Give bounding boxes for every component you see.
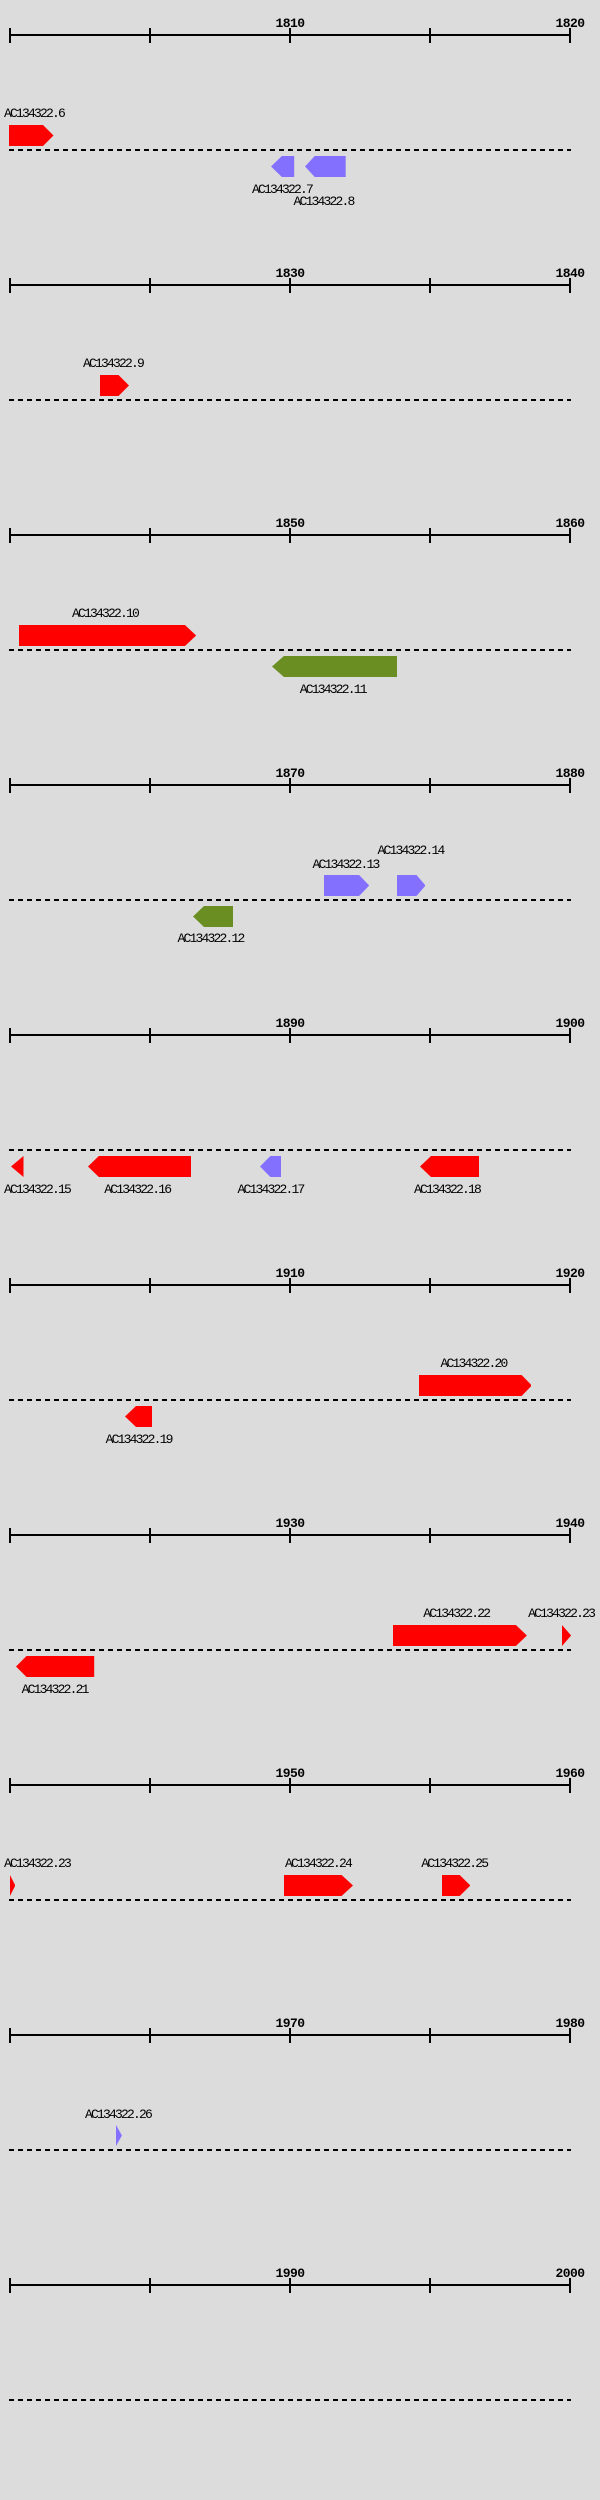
feature arrow AC134322.10 xyxy=(19,625,196,646)
panel 7 tick 1920 xyxy=(9,1528,11,1543)
panel 1 dashed midline xyxy=(9,149,571,151)
feature arrow AC134322.17 xyxy=(260,1156,281,1177)
feature arrow AC134322.18 xyxy=(420,1156,479,1177)
panel 9 tick 1980 xyxy=(569,2028,571,2043)
panel 8 ruler label 1950 xyxy=(276,1767,305,1780)
panel 10 tick 2000 xyxy=(569,2278,571,2293)
panel 8 tick 1950 xyxy=(289,1778,291,1793)
panel 5 ruler label 1890 xyxy=(276,1017,305,1030)
feature arrow AC134322.22 xyxy=(393,1625,527,1646)
panel 3 ruler label 1860 xyxy=(556,517,585,530)
feature label AC134322.24 xyxy=(285,1857,351,1870)
feature arrow AC134322.7 xyxy=(271,156,294,177)
panel 6 ruler label 1910 xyxy=(276,1267,305,1280)
feature label AC134322.14 xyxy=(378,844,444,857)
panel 2 ruler label 1830 xyxy=(276,267,305,280)
panel 10 dashed midline xyxy=(9,2399,571,2401)
panel 4 dashed midline xyxy=(9,899,571,901)
feature label AC134322.8 xyxy=(294,195,354,208)
feature label AC134322.7 xyxy=(252,183,312,196)
panel 10 tick 1980 xyxy=(9,2278,11,2293)
panel 7 ruler line (1920..1940) xyxy=(9,1534,571,1536)
feature arrow AC134322.25 xyxy=(442,1875,470,1896)
feature label AC134322.26 xyxy=(85,2108,151,2121)
feature label AC134322.16 xyxy=(104,1183,170,1196)
panel 4 tick 1870 xyxy=(289,778,291,793)
panel 7 ruler label 1940 xyxy=(556,1517,585,1530)
feature label AC134322.12 xyxy=(178,932,244,945)
feature arrow AC134322.24 xyxy=(284,1875,353,1896)
panel 9 ruler line (1960..1980) xyxy=(9,2034,571,2036)
feature arrow AC134322.6 xyxy=(9,125,54,146)
panel 9 tick 1970 xyxy=(289,2028,291,2043)
feature arrow AC134322.23 xyxy=(10,1875,15,1896)
panel 7 tick 1935 xyxy=(429,1528,431,1543)
feature label AC134322.13 xyxy=(313,858,379,871)
panel 4 ruler label 1880 xyxy=(556,767,585,780)
feature label AC134322.22 xyxy=(423,1607,489,1620)
panel 2 tick 1820 xyxy=(9,278,11,293)
feature label AC134322.17 xyxy=(238,1183,304,1196)
panel 10 tick 1990 xyxy=(289,2278,291,2293)
panel 3 tick 1850 xyxy=(289,528,291,543)
panel 3 tick 1860 xyxy=(569,528,571,543)
panel 4 tick 1875 xyxy=(429,778,431,793)
panel 2 tick 1840 xyxy=(569,278,571,293)
panel 5 tick 1880 xyxy=(9,1028,11,1043)
feature arrow AC134322.19 xyxy=(125,1406,152,1427)
panel 9 tick 1975 xyxy=(429,2028,431,2043)
panel 7 tick 1930 xyxy=(289,1528,291,1543)
panel 2 dashed midline xyxy=(9,399,571,401)
panel 3 ruler label 1850 xyxy=(276,517,305,530)
feature arrow AC134322.9 xyxy=(100,375,129,396)
panel 4 tick 1865 xyxy=(149,778,151,793)
panel 6 tick 1905 xyxy=(149,1278,151,1293)
panel 1 ruler line (1800..1820) xyxy=(9,34,571,36)
feature label AC134322.19 xyxy=(106,1433,172,1446)
panel 9 ruler label 1980 xyxy=(556,2017,585,2030)
panel 10 tick 1985 xyxy=(149,2278,151,2293)
panel 8 tick 1960 xyxy=(569,1778,571,1793)
panel 8 ruler line (1940..1960) xyxy=(9,1784,571,1786)
feature label AC134322.20 xyxy=(441,1357,507,1370)
panel 4 tick 1860 xyxy=(9,778,11,793)
feature arrow AC134322.16 xyxy=(88,1156,191,1177)
feature arrow AC134322.15 xyxy=(11,1156,24,1177)
feature arrow AC134322.20 xyxy=(419,1375,532,1396)
panel 6 tick 1920 xyxy=(569,1278,571,1293)
feature label AC134322.18 xyxy=(414,1183,480,1196)
panel 1 tick 1815 xyxy=(429,28,431,43)
feature label AC134322.6 xyxy=(4,107,64,120)
panel 3 tick 1845 xyxy=(149,528,151,543)
feature label AC134322.9 xyxy=(83,357,143,370)
panel 4 ruler line (1860..1880) xyxy=(9,784,571,786)
panel 5 ruler line (1880..1900) xyxy=(9,1034,571,1036)
panel 5 tick 1900 xyxy=(569,1028,571,1043)
feature arrow AC134322.13 xyxy=(324,875,369,896)
panel 10 ruler label 2000 xyxy=(556,2267,585,2280)
panel 8 tick 1955 xyxy=(429,1778,431,1793)
panel 6 ruler line (1900..1920) xyxy=(9,1284,571,1286)
feature arrow AC134322.14 xyxy=(397,875,426,896)
feature arrow AC134322.8 xyxy=(305,156,346,177)
panel 1 tick 1820 xyxy=(569,28,571,43)
panel 1 tick 1810 xyxy=(289,28,291,43)
panel 5 tick 1895 xyxy=(429,1028,431,1043)
feature label AC134322.10 xyxy=(72,607,138,620)
panel 6 tick 1915 xyxy=(429,1278,431,1293)
panel 2 tick 1835 xyxy=(429,278,431,293)
panel 10 ruler label 1990 xyxy=(276,2267,305,2280)
panel 3 tick 1840 xyxy=(9,528,11,543)
feature arrow AC134322.12 xyxy=(193,906,233,927)
panel 2 ruler label 1840 xyxy=(556,267,585,280)
panel 10 tick 1995 xyxy=(429,2278,431,2293)
feature label AC134322.15 xyxy=(4,1183,70,1196)
panel 8 tick 1940 xyxy=(9,1778,11,1793)
panel 3 ruler line (1840..1860) xyxy=(9,534,571,536)
panel 5 tick 1890 xyxy=(289,1028,291,1043)
panel 1 ruler label 1810 xyxy=(276,17,305,30)
panel 2 tick 1825 xyxy=(149,278,151,293)
feature arrow AC134322.21 xyxy=(16,1656,94,1677)
panel 8 ruler label 1960 xyxy=(556,1767,585,1780)
feature label AC134322.23 xyxy=(4,1857,70,1870)
feature label AC134322.23 xyxy=(528,1607,594,1620)
panel 8 tick 1945 xyxy=(149,1778,151,1793)
feature arrow AC134322.11 xyxy=(272,656,397,677)
panel 7 ruler label 1930 xyxy=(276,1517,305,1530)
panel 3 dashed midline xyxy=(9,649,571,651)
panel 7 tick 1940 xyxy=(569,1528,571,1543)
panel 6 tick 1900 xyxy=(9,1278,11,1293)
panel 9 tick 1960 xyxy=(9,2028,11,2043)
panel 2 tick 1830 xyxy=(289,278,291,293)
feature label AC134322.25 xyxy=(421,1857,487,1870)
panel 1 tick 1800 xyxy=(9,28,11,43)
feature label AC134322.21 xyxy=(22,1683,88,1696)
panel 8 dashed midline xyxy=(9,1899,571,1901)
panel 10 ruler line (1980..2000) xyxy=(9,2284,571,2286)
panel 5 dashed midline xyxy=(9,1149,571,1151)
panel 5 ruler label 1900 xyxy=(556,1017,585,1030)
panel 6 dashed midline xyxy=(9,1399,571,1401)
feature arrow AC134322.23 xyxy=(562,1625,571,1646)
panel 3 tick 1855 xyxy=(429,528,431,543)
panel 9 tick 1965 xyxy=(149,2028,151,2043)
panel 5 tick 1885 xyxy=(149,1028,151,1043)
panel 6 ruler label 1920 xyxy=(556,1267,585,1280)
panel 9 dashed midline xyxy=(9,2149,571,2151)
panel 4 ruler label 1870 xyxy=(276,767,305,780)
panel 1 tick 1805 xyxy=(149,28,151,43)
feature arrow AC134322.26 xyxy=(116,2125,122,2146)
panel 7 tick 1925 xyxy=(149,1528,151,1543)
panel 2 ruler line (1820..1840) xyxy=(9,284,571,286)
panel 4 tick 1880 xyxy=(569,778,571,793)
panel 9 ruler label 1970 xyxy=(276,2017,305,2030)
panel 7 dashed midline xyxy=(9,1649,571,1651)
panel 1 ruler label 1820 xyxy=(556,17,585,30)
panel 6 tick 1910 xyxy=(289,1278,291,1293)
feature label AC134322.11 xyxy=(300,683,366,696)
